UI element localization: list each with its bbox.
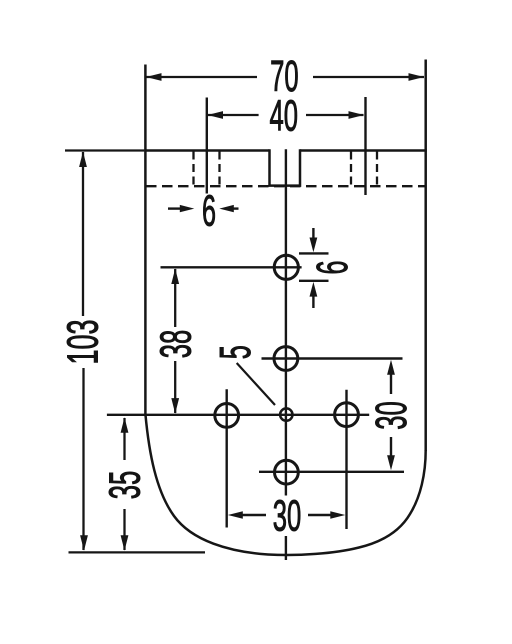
dim line 103 <box>82 152 84 316</box>
arrow 30 bottom right <box>330 511 345 519</box>
40 extension line left <box>206 98 208 194</box>
vertical through left hole <box>225 389 227 527</box>
arrow 6 tab right <box>219 205 234 212</box>
arrow 30 bottom left <box>228 511 243 519</box>
svg-text:6: 6 <box>202 188 216 236</box>
dim line 40 <box>208 114 259 116</box>
line through bottom hole <box>259 471 404 473</box>
hole middle <box>274 347 298 371</box>
plate top edge left segment <box>144 149 269 152</box>
arrow 103 top <box>79 152 87 168</box>
svg-text:35: 35 <box>102 471 150 500</box>
tab hidden edge right A <box>350 152 352 187</box>
plate left edge + 70 extension above <box>144 65 147 416</box>
svg-text:40: 40 <box>269 93 298 141</box>
6 hole dim extension bottom <box>299 280 329 282</box>
tab hidden edge left B <box>218 152 220 187</box>
svg-text:30: 30 <box>273 493 302 541</box>
30 right dim line <box>390 372 392 394</box>
tab hidden edge left A <box>192 152 194 187</box>
svg-text:6: 6 <box>309 261 357 275</box>
arrow 38 top <box>171 269 179 285</box>
40 extension line right <box>364 97 366 195</box>
6 tab dim arrow tails <box>168 207 182 209</box>
hole small 5mm <box>280 408 292 420</box>
line through hole row <box>107 414 369 416</box>
svg-text:38: 38 <box>153 330 201 359</box>
arrow 103 bottom <box>80 535 88 551</box>
plate top edge right segment <box>300 149 427 152</box>
103/35 bottom extension <box>69 551 206 553</box>
arrow 40 right <box>349 111 365 119</box>
dim line 70 <box>146 76 257 78</box>
svg-text:5: 5 <box>212 345 260 359</box>
svg-text:103: 103 <box>60 320 108 365</box>
5 leader line <box>237 363 275 405</box>
arrow 6 tab left <box>180 205 195 212</box>
arrow 40 left <box>208 111 224 119</box>
line through top hole <box>161 266 302 268</box>
dim line 38 <box>174 269 176 327</box>
6 hole dim arrow tails <box>312 228 314 240</box>
arrow 70 right <box>409 73 425 81</box>
notch <box>270 149 301 185</box>
arrow 70 left <box>146 73 162 81</box>
30 bottom dim line <box>240 514 266 516</box>
arrow 6 hole bottom <box>310 282 318 297</box>
plate bottom curve <box>145 414 425 555</box>
hole right <box>335 403 359 427</box>
arrow 30 right top <box>387 360 395 375</box>
dim line 35 <box>123 418 125 460</box>
hole top 6mm <box>274 255 298 279</box>
vertical through right hole <box>345 390 347 529</box>
tab hidden edge right B <box>376 152 378 187</box>
plate right edge + 70 extension above <box>424 60 427 452</box>
arrow 35 top <box>121 417 129 433</box>
hole left <box>215 404 239 428</box>
arrow 30 right bottom <box>387 455 395 470</box>
arrow 38 bottom <box>171 398 179 414</box>
svg-text:30: 30 <box>368 401 416 430</box>
hidden tab line (dashed) <box>146 185 426 187</box>
hole bottom <box>275 460 299 484</box>
103 top extension <box>65 149 144 151</box>
arrow 35 bottom <box>121 535 129 551</box>
line through middle hole <box>262 357 403 359</box>
6 hole dim extension top <box>299 252 329 254</box>
arrow 6 hole top <box>310 238 318 253</box>
vertical centerline <box>285 149 287 495</box>
